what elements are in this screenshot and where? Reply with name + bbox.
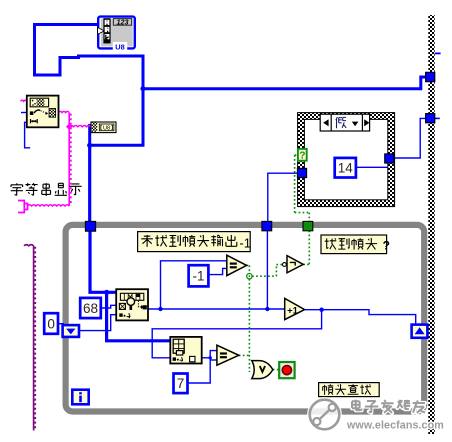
svg-text:123: 123 [117, 18, 129, 27]
svg-text:U8: U8 [103, 126, 110, 132]
svg-text:U8: U8 [115, 42, 124, 51]
svg-text:?: ? [383, 239, 390, 253]
svg-text:14: 14 [338, 161, 354, 176]
svg-text:-1: -1 [192, 269, 204, 284]
svg-text:+1: +1 [287, 306, 299, 317]
svg-text:7: 7 [177, 376, 185, 391]
svg-text:-1: -1 [239, 236, 251, 251]
svg-text:68: 68 [83, 301, 98, 316]
svg-text:www.elecfans.com: www.elecfans.com [346, 420, 444, 432]
svg-text:?: ? [299, 151, 305, 162]
svg-text:0: 0 [47, 316, 55, 331]
